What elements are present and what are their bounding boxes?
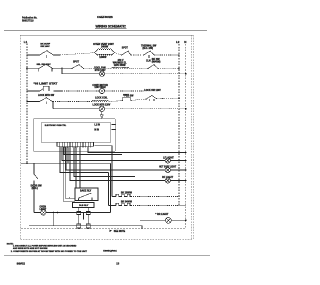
- switch S8b lock interlock: [147, 95, 157, 101]
- svg-text:DLB RLY: DLB RLY: [79, 205, 89, 207]
- switch: TOD switch label row1: [141, 44, 157, 49]
- heater: warmer element label: [113, 61, 127, 66]
- svg-text:LOCK COIL: LOCK COIL: [95, 98, 108, 100]
- svg-text:(WARM): (WARM): [152, 60, 161, 63]
- motor: convection motor label: [92, 85, 108, 89]
- svg-text:SEE NOTE: SEE NOTE: [114, 231, 126, 233]
- wire harness element2 feed: [108, 173, 110, 206]
- lamp: oven light label: [40, 206, 47, 210]
- wire row2 from L1: [27, 67, 39, 69]
- wire row2 to SPST switch: [62, 67, 72, 69]
- wire harness drop 10: [88, 147, 186, 153]
- wire row4 dashed to element: [53, 101, 92, 103]
- wire row1 dashed to vent element: [60, 53, 95, 55]
- op-board: pin label N: [94, 129, 115, 131]
- svg-text:RF LIGHT: RF LIGHT: [162, 176, 174, 179]
- svg-text:1200W: 1200W: [99, 57, 107, 59]
- svg-text:L2: L2: [176, 40, 180, 44]
- switch: door switch drop: [33, 163, 35, 173]
- svg-text:LOCK SW 120V: LOCK SW 120V: [144, 90, 161, 92]
- svg-text:(N.O. 240): (N.O. 240): [143, 47, 154, 50]
- svg-text:5995177119: 5995177119: [22, 20, 34, 23]
- wire lampC to N: [170, 180, 186, 182]
- wire row1 to L2: [155, 54, 180, 56]
- switch S4 row2: [39, 64, 62, 72]
- node junction light tap1: [53, 212, 55, 214]
- switch: surface unit switch label: [40, 44, 50, 48]
- node junction row3-L1: [26, 90, 28, 92]
- wire lock row to L2: [157, 97, 180, 99]
- relay K2 pins upper: [77, 208, 91, 229]
- wire row4b to N: [105, 108, 186, 110]
- switch: warmer switch label: [152, 59, 161, 63]
- node connector arrow P1: [100, 115, 103, 119]
- title WIRING SCHEMATIC: [95, 24, 127, 28]
- lamp L3 indicator: [165, 178, 170, 183]
- wire lock row dashed: [132, 99, 147, 100]
- wire strip right lead: [95, 146, 113, 197]
- wire row2 to L2: [158, 67, 179, 69]
- wire harness drop 6: [70, 147, 165, 181]
- svg-text:*HI LIMIT STAT: *HI LIMIT STAT: [34, 83, 58, 86]
- node junction drop12-K1: [69, 197, 70, 198]
- wire lampB to N: [170, 169, 186, 171]
- wire harness drop 7: [74, 147, 135, 177]
- node junction row4 tap: [52, 101, 54, 103]
- svg-text:* RR LIGHT: * RR LIGHT: [155, 213, 168, 216]
- switch S5 row2: [72, 64, 84, 68]
- svg-text:N: N: [184, 40, 186, 44]
- wire row3 from L1: [27, 90, 39, 92]
- heater: broil element: [109, 203, 133, 205]
- svg-text:OVEN VENT 240V: OVEN VENT 240V: [93, 43, 114, 46]
- node junction row2 tap: [61, 68, 63, 70]
- wire motor row4b: [53, 108, 99, 110]
- header publication text: [22, 16, 37, 22]
- wire row1 L1 segment: [27, 54, 39, 56]
- svg-text:CGEF3042S: CGEF3042S: [97, 15, 113, 19]
- wire drop to oven light row: [110, 163, 112, 212]
- node junction row1-L2: [178, 54, 180, 56]
- switch S8a plunger (NC bracket): [122, 98, 131, 101]
- heater: lock coil element row4: [92, 100, 109, 101]
- lamp L5 rear light: [140, 217, 186, 223]
- schematic frame: [20, 35, 193, 240]
- node junction row4b-N: [185, 108, 187, 110]
- svg-text:WIRING SCHEMATIC: WIRING SCHEMATIC: [96, 24, 127, 28]
- lamp L4 oven light: [34, 210, 46, 215]
- svg-text:L1: L1: [24, 40, 28, 44]
- node junction fanrow-N: [185, 73, 187, 75]
- heater: bake element: [112, 194, 132, 196]
- svg-text:SPST: SPST: [73, 62, 80, 64]
- relay K1 contact: [79, 193, 93, 201]
- lamp L2 indicator: [165, 167, 170, 172]
- svg-text:120V 650W: 120V 650W: [114, 65, 127, 67]
- wire harness drop 12: [65, 147, 75, 198]
- wire harness drop 8: [75, 147, 77, 188]
- wire lampA to N: [170, 160, 186, 162]
- wire harness drop 9: [79, 147, 81, 188]
- motor M2 convection: [99, 88, 104, 93]
- node junction row2-L2: [178, 68, 180, 70]
- connector P2 strip: [57, 142, 94, 147]
- wire drop to cooling fan branch: [61, 68, 63, 73]
- svg-text:2. COMPONENTS SHOWN AT ROOM TE: 2. COMPONENTS SHOWN AT ROOM TEMP WITH NO…: [11, 250, 88, 253]
- switch S3 row1: [144, 51, 155, 58]
- svg-text:BAKE RLY: BAKE RLY: [80, 190, 92, 193]
- switch S9 row4: [40, 97, 53, 104]
- header rule line: [4, 30, 207, 32]
- wire harness drop 3: [64, 147, 122, 155]
- switch S2 row1: [122, 51, 143, 55]
- svg-text:ELECTRONIC OVEN CTRL: ELECTRONIC OVEN CTRL: [45, 125, 67, 127]
- wire row4 from L1: [27, 101, 39, 103]
- wire harness drop 11: [63, 147, 75, 201]
- node junction harness-N: [185, 152, 187, 154]
- node junction lampC-N: [185, 180, 187, 182]
- notes block: [7, 243, 88, 252]
- heater: warmer element row2: [112, 67, 130, 68]
- heater: oven vent element label: [93, 43, 114, 49]
- footer rule line: [4, 255, 210, 257]
- switch S7 hi-limit (NC) row3: [40, 86, 63, 91]
- svg-text:5995QR04: 5995QR04: [103, 250, 117, 253]
- switch S1 row1: [40, 50, 61, 58]
- wire bake element to L2: [133, 196, 179, 198]
- svg-text:99/02: 99/02: [17, 262, 26, 266]
- svg-text:N IN: N IN: [94, 129, 99, 131]
- wire broil element to N: [133, 205, 186, 207]
- motor M1 cooling fan: [99, 71, 104, 76]
- switch S6 row2: [148, 64, 158, 68]
- lamp L1 indicator: [165, 158, 170, 163]
- node junction row1-L1: [26, 54, 28, 56]
- op-board: electronic oven control inner board: [41, 123, 111, 143]
- wire harness drop 5: [67, 147, 69, 163]
- svg-text:AND WIRE NUTS ARE NOT SHOWN: AND WIRE NUTS ARE NOT SHOWN: [13, 247, 48, 250]
- op-board: electronic oven control outer case: [33, 119, 116, 152]
- node junction lampB-N: [185, 169, 187, 171]
- node junction light tap2: [56, 212, 58, 214]
- node junction lampA-N: [185, 160, 187, 162]
- node junction L1-bottom: [26, 163, 28, 165]
- wire row2 dashed after element: [129, 67, 147, 69]
- L1 rail: [26, 44, 28, 164]
- svg-text:L1 IN: L1 IN: [94, 124, 100, 126]
- wire row4 dashed to bracket: [109, 100, 123, 103]
- svg-text:LOCK MTR SW: LOCK MTR SW: [38, 95, 55, 97]
- node junction rearlight-N: [185, 220, 187, 222]
- N rail: [185, 44, 187, 229]
- wire row3 dashed to conv motor: [62, 90, 99, 92]
- wire cooling fan row: [62, 73, 99, 75]
- node junction bake-L2: [178, 196, 180, 198]
- svg-text:CLN: CLN: [146, 61, 151, 63]
- wire harness drop 2: [62, 147, 165, 161]
- node junction lockrow-L2: [178, 97, 180, 99]
- relay K2 box label: [73, 203, 95, 208]
- op-board: pin label L1: [94, 124, 115, 126]
- svg-text:2400W: 2400W: [101, 46, 109, 49]
- wire lower bus: [29, 226, 142, 229]
- wire row2 dashed to zigzag: [84, 67, 112, 69]
- node junction row4-L1: [26, 101, 28, 103]
- wire harness drop 1: [60, 147, 109, 173]
- wire L1 lower feed: [21, 162, 111, 164]
- motor M3 lock motor: [99, 106, 105, 112]
- wire row1 after vent: [115, 53, 122, 56]
- svg-text:13: 13: [116, 262, 119, 266]
- wire lock motor lead to control: [101, 112, 103, 115]
- wire cooling fan to N: [105, 73, 186, 75]
- svg-text:(N.O.): (N.O.): [32, 188, 38, 190]
- L2 rail: [178, 44, 180, 206]
- wire oven light to junctions: [46, 212, 110, 214]
- wire bottom return bus: [21, 228, 186, 230]
- wire harness drop 4: [66, 147, 165, 170]
- switch S10 door switch: [34, 174, 38, 213]
- svg-text:SPDT: SPDT: [122, 47, 129, 49]
- switch: door switch label: [31, 186, 43, 190]
- motor: cooling fan label: [94, 67, 106, 72]
- wire light drop: [52, 213, 54, 226]
- svg-text:SW 240V: SW 240V: [40, 45, 50, 48]
- heater: vent element upper branch: [95, 49, 115, 56]
- relay K1 box label: [75, 188, 98, 201]
- wire drop row4 to motor row: [52, 102, 54, 109]
- note arrow marker: [110, 230, 113, 232]
- node junction row2-L1: [26, 68, 28, 70]
- wire row3 right lead: [105, 90, 144, 92]
